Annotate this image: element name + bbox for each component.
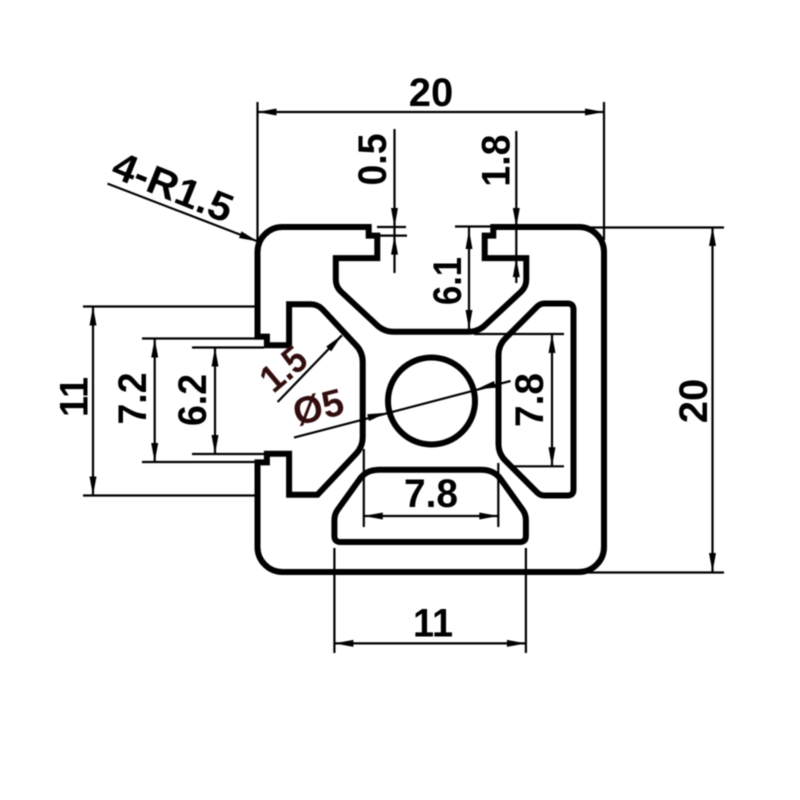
dim right 7.8 <box>474 333 564 335</box>
center hole circle <box>388 358 475 445</box>
right cavity <box>499 304 574 496</box>
dim 6.1 <box>455 225 491 227</box>
dim bottom 11 <box>333 548 335 653</box>
dim right 20 <box>588 226 724 228</box>
svg-text:20: 20 <box>672 379 716 424</box>
profile outer contour <box>258 227 605 572</box>
svg-text:11: 11 <box>413 602 453 646</box>
dim web 1.5 leader <box>278 335 342 402</box>
dim left 11 <box>83 305 256 307</box>
svg-text:6.2: 6.2 <box>171 374 215 426</box>
svg-text:1.8: 1.8 <box>475 135 519 187</box>
dim 1.8 <box>515 131 517 283</box>
dim 0.5 <box>393 129 395 273</box>
dim top 20 <box>256 102 258 240</box>
dim bottom 7.8 <box>363 449 365 527</box>
svg-text:0.5: 0.5 <box>351 134 395 186</box>
dim hole diameter 5 leader <box>294 381 511 438</box>
bottom cavity <box>334 470 526 542</box>
svg-text:7.8: 7.8 <box>508 373 552 427</box>
svg-text:7.8: 7.8 <box>404 472 458 516</box>
svg-text:7.2: 7.2 <box>111 373 155 425</box>
svg-text:11: 11 <box>53 377 97 417</box>
dim left 7.2 <box>142 337 266 339</box>
dim corner 4-R1.5 leader <box>108 184 259 242</box>
svg-text:20: 20 <box>409 71 454 115</box>
svg-text:6.1: 6.1 <box>426 257 470 305</box>
dim left 6.2 <box>192 346 264 348</box>
